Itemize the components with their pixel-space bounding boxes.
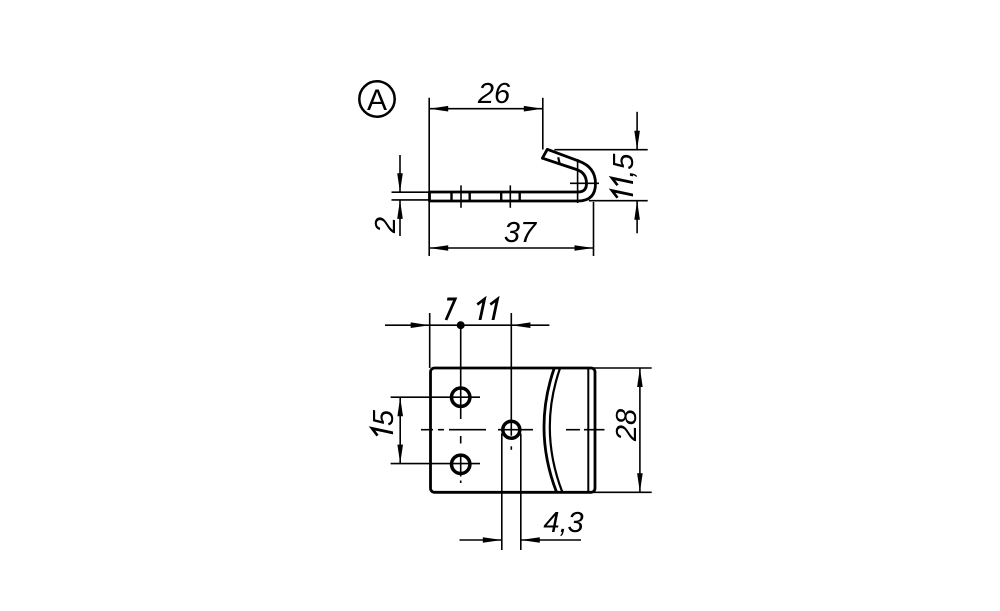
svg-text:5: 5 <box>368 409 400 426</box>
horizontal centerline <box>421 429 605 431</box>
arrowhead 28 bottom <box>637 473 643 492</box>
arrowhead 15 top <box>397 397 403 416</box>
arrowhead 4,3 right <box>521 537 540 543</box>
hole centerline 1 <box>460 185 462 207</box>
hole edge tick 2a <box>500 193 502 201</box>
dim 2 arrow line bottom <box>399 200 401 236</box>
extension line right of dim 26 (hook tip) <box>542 98 544 150</box>
vertical centerline middle hole <box>510 313 512 450</box>
dim 11,5 extension line top <box>554 149 647 151</box>
dim 2 arrow line top <box>399 155 401 192</box>
arrowhead 37 left <box>429 245 448 251</box>
dim 11,5 arrowhead bottom <box>634 201 640 220</box>
arrowhead 26 left <box>429 106 448 112</box>
dim 11,5 extension line bottom <box>589 200 648 202</box>
hole bottom-left <box>452 455 470 473</box>
arrowhead 4,3 left <box>483 537 502 543</box>
dim 4,3 arrow line left <box>460 539 502 541</box>
dimension line 28 <box>639 368 641 492</box>
dimension line 37 <box>429 247 593 249</box>
dim 28 extension line bottom <box>593 491 652 493</box>
dimension line 26 <box>429 108 543 110</box>
dim 15 dimension line <box>399 397 401 463</box>
hole edge tick 1b <box>469 193 471 201</box>
dim 2 arrowhead top <box>397 173 403 192</box>
tip section tick <box>558 157 560 164</box>
svg-text:26: 26 <box>477 78 511 110</box>
extension line left (dims 26/37) <box>428 98 430 256</box>
bend arc outer <box>544 368 557 492</box>
dim 4,3 extension line left <box>501 434 503 551</box>
dim 4,3 extension line right <box>520 434 522 551</box>
dim 2 extension line top <box>392 191 430 193</box>
hole middle <box>503 421 520 438</box>
hole edge tick 2b <box>519 193 521 201</box>
dim text 11 <box>474 299 497 320</box>
bend arc inner <box>550 368 563 492</box>
extension line right of dim 37 <box>593 202 595 256</box>
dim text 15 (rotated) <box>368 409 400 439</box>
hole centerline 2 <box>509 185 511 207</box>
dim text 7 <box>444 299 456 320</box>
dim 11,5 arrow line top <box>636 112 638 150</box>
dim 2 extension line bottom <box>392 199 430 201</box>
arrowhead 15 bottom <box>397 445 403 464</box>
svg-text:37: 37 <box>504 217 538 249</box>
bend center cross vertical <box>577 159 579 203</box>
dim 28 extension line top <box>593 367 652 369</box>
arrowhead 11 (outside right) <box>511 322 530 328</box>
arrowhead 28 top <box>637 368 643 387</box>
arrowhead 7 (outside left) <box>411 322 430 328</box>
svg-text:4,3: 4,3 <box>543 507 583 539</box>
arrowhead 26 right <box>524 106 543 112</box>
hole top-left <box>452 388 470 406</box>
hook tip edge line <box>587 368 589 492</box>
hole edge tick 1a <box>450 193 452 201</box>
svg-text:28: 28 <box>611 409 643 442</box>
dim text 11,5 (rotated) <box>608 153 640 201</box>
dim 11,5 arrowhead top <box>634 131 640 150</box>
hole bottom-left horizontal centerline <box>391 463 480 465</box>
dim 7/11 extension line left <box>429 313 431 368</box>
arrowhead 37 right <box>575 245 594 251</box>
vertical centerline through left holes <box>460 325 462 483</box>
dim 2 arrowhead bottom <box>397 200 403 219</box>
plate outline <box>431 368 596 492</box>
hole top-left horizontal centerline <box>391 396 480 398</box>
view label A circle <box>359 81 394 116</box>
hook strip outline <box>430 149 596 201</box>
dim 7 dot <box>457 321 465 329</box>
svg-text:2: 2 <box>370 217 402 234</box>
bend center cross horizontal <box>570 182 599 184</box>
svg-text:,5: ,5 <box>608 153 640 178</box>
dimension line 7-11 <box>385 324 549 326</box>
dim 11,5 arrow line bottom <box>636 201 638 234</box>
dim 4,3 arrow line right <box>521 539 581 541</box>
svg-text:A: A <box>367 84 387 117</box>
